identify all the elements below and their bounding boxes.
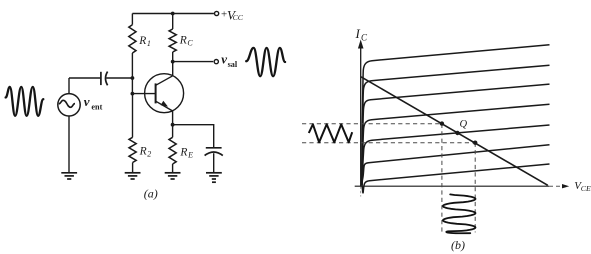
wire R2 to ground [132, 163, 134, 173]
wire capacitor to base node [106, 77, 132, 79]
dashed vertical line left [441, 124, 443, 234]
v_sal terminal circle [214, 60, 218, 64]
characteristic curve 1 [362, 45, 550, 186]
y axis below-origin stub [360, 186, 362, 196]
AC source inner sine [59, 100, 75, 107]
y axis arrow [358, 40, 364, 49]
svg-text:C: C [361, 33, 368, 43]
coupling capacitor left plate [100, 72, 102, 85]
svg-text:(b): (b) [451, 238, 465, 252]
characteristic curve 2 [362, 65, 550, 185]
wire base node down to R2 [132, 94, 134, 138]
bypass capacitor curved plate [205, 152, 223, 156]
transistor Q1 circle [145, 74, 184, 113]
x axis dashed extension [549, 185, 565, 187]
coupling capacitor right curved plate [106, 72, 108, 86]
y axis [360, 46, 362, 186]
svg-text:Q: Q [460, 119, 468, 130]
transistor emitter arrow [161, 101, 168, 107]
svg-text:v: v [221, 52, 227, 67]
wire source bottom to ground [68, 116, 70, 173]
svg-text:R: R [138, 35, 146, 47]
wire emitter node to bypass capacitor [173, 125, 214, 147]
emitter wire down [172, 111, 174, 137]
svg-text:R: R [179, 35, 187, 47]
x axis [355, 185, 549, 187]
AC source v_ent circle [58, 94, 80, 116]
characteristic curve 4 [362, 104, 550, 185]
dashed horizontal line upper [302, 123, 442, 125]
node collector junction [171, 60, 175, 64]
node dot lower on load line [473, 141, 477, 145]
wire RE to ground [172, 164, 174, 173]
node emitter junction [171, 123, 175, 127]
transistor base wire [132, 93, 155, 95]
ground (bypass capacitor) [206, 173, 222, 182]
resistor RC [169, 29, 176, 52]
output swing vertical sine [443, 194, 476, 233]
ground (RE) [165, 173, 181, 179]
dashed vertical line right [474, 143, 476, 233]
transistor collector line [156, 76, 173, 85]
characteristic curve 5 [362, 125, 549, 185]
wire bypass capacitor to ground [213, 153, 215, 172]
wire to coupling capacitor [69, 77, 100, 79]
+Vcc terminal circle [215, 11, 219, 15]
input swing triangle wave [309, 124, 352, 142]
x axis arrow [562, 184, 569, 188]
svg-text:1: 1 [147, 39, 151, 48]
resistor R2 [129, 137, 136, 162]
top rail wire [132, 13, 214, 15]
svg-text:sal: sal [228, 60, 238, 69]
node base junction [131, 92, 135, 96]
svg-text:(a): (a) [144, 186, 158, 200]
resistor RE [169, 137, 176, 164]
ground (source) [61, 173, 77, 179]
resistor R1 [129, 25, 136, 53]
node on top rail [171, 12, 175, 16]
dashed horizontal line lower [302, 142, 475, 144]
v_sal output wire [173, 61, 214, 63]
ground (R2) [125, 173, 141, 179]
svg-text:C: C [187, 39, 193, 48]
svg-text:R: R [179, 146, 187, 158]
svg-text:R: R [139, 145, 147, 157]
load line [361, 77, 548, 186]
svg-text:CC: CC [233, 13, 244, 22]
node capacitor junction [131, 76, 135, 80]
svg-text:2: 2 [147, 149, 151, 158]
transistor emitter line [156, 101, 173, 111]
characteristic curve 7 [362, 164, 550, 193]
svg-text:CE: CE [581, 184, 591, 193]
characteristic curve 6 [362, 145, 550, 186]
resistor RC lead [172, 14, 174, 30]
characteristic curve 3 [362, 84, 550, 185]
input signal squiggle [6, 87, 44, 116]
Q point dot [455, 131, 459, 135]
transistor base bar [155, 83, 157, 103]
bypass capacitor top plate [206, 147, 222, 149]
svg-text:ent: ent [91, 103, 102, 112]
svg-text:v: v [84, 94, 90, 109]
svg-text:E: E [187, 150, 193, 159]
resistor R1 lead [131, 14, 133, 25]
wire RC to collector node [172, 52, 174, 76]
wire source top to capacitor level [68, 78, 70, 94]
wire R1 bottom to base node [131, 53, 133, 94]
node dot upper on load line [440, 121, 444, 125]
output signal squiggle [246, 48, 285, 76]
svg-text:I: I [355, 26, 361, 41]
